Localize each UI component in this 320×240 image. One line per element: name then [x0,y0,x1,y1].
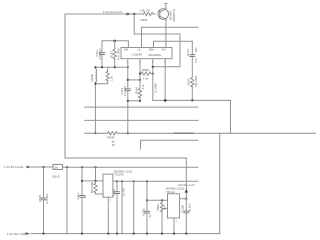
capacitor C505 [43,167,45,198]
wire IC pin3 return [153,66,180,68]
svg-text:4.7u 16V: 4.7u 16V [123,85,127,96]
svg-text:1.5k 1/4: 1.5k 1/4 [140,9,151,13]
svg-text:1u 50V: 1u 50V [122,188,126,196]
svg-text:2N5087 B: 2N5087 B [172,9,176,22]
svg-text:1u: 1u [148,214,152,217]
wire dropper plain 3 [133,181,135,233]
svg-text:*C11B: *C11B [181,205,185,213]
svg-text:AO+: AO+ [162,49,167,52]
svg-text:1u 50V: 1u 50V [187,203,191,211]
svg-text:7: 7 [176,220,178,223]
resistor R563 [191,77,194,87]
resistor R565 [141,72,152,75]
node R565 right [152,73,154,75]
wire ground rail bottom [31,233,220,235]
svg-text:4.7k: 4.7k [141,84,145,90]
wire long line to page edge [85,132,108,134]
svg-text:MC34063L: MC34063L [149,53,162,57]
wire collector to IC [165,19,167,47]
svg-text:4.7u 50V: 4.7u 50V [45,193,49,204]
capacitor C503 [146,181,148,211]
node dots ground rail [42,233,44,235]
wire 12V thru supply vertical [185,158,187,211]
wire bottom feed across [65,157,186,159]
svg-text:L900a: L900a [90,74,94,82]
svg-text:C505: C505 [38,195,42,202]
wire IC pin riser to upper rail [142,27,198,47]
capacitor C113 [81,167,83,195]
capacitor C112 vertical line [127,67,129,88]
wire IC pin1 bottom stub [127,59,129,67]
svg-text:1.6k 1/2W: 1.6k 1/2W [194,75,198,87]
wire IC11A right pin [180,198,187,200]
svg-text:1.2k: 1.2k [110,75,114,81]
svg-text:C113: C113 [76,192,80,199]
wire emitter stub up [165,3,167,9]
svg-text:R564: R564 [135,87,139,94]
svg-text:BW+: BW+ [149,49,155,52]
wire junction down [134,14,180,67]
resistor R545 inline [108,132,119,135]
svg-text:R563: R563 [186,78,190,85]
wire lower header [95,66,127,68]
wire bus corner down right [219,133,221,233]
resistor R944 [107,67,109,70]
node 12V-in arrow [127,13,132,16]
svg-text:4.7u: 4.7u [194,57,198,63]
svg-text:*IC11A: *IC11A [166,190,175,194]
capacitor C510 [116,181,118,191]
resistor R950a [94,181,97,194]
node dots lower header [94,66,96,68]
svg-text:820 1/4W: 820 1/4W [90,181,94,193]
wire output net right of IC10A [113,180,198,182]
svg-text:R565: R565 [142,68,149,72]
svg-text:R553: R553 [141,18,148,22]
svg-text:7: 7 [110,200,112,203]
capacitor C11B [184,210,189,212]
wire darker overlap segment [174,132,194,134]
node header junction [114,40,116,42]
resistor R147 [114,41,116,49]
wire C112 to R564 connector [128,79,140,81]
svg-text:0.0047uF: 0.0047uF [98,48,102,59]
wire R951 to IC11A pin [162,208,168,210]
svg-text:1 W: 1 W [143,77,148,81]
node dots lower rail [42,166,44,168]
svg-text:3A: 3A [54,166,58,170]
svg-text:R951: R951 [156,204,160,211]
svg-text:1k 1/4W: 1k 1/4W [154,83,158,93]
svg-text:R147: R147 [109,51,113,58]
wire VCC connector stub [95,167,97,181]
wire mini bus [128,100,140,102]
wire after arrow to junction [132,13,142,15]
wire dropper plain 2 [121,181,123,233]
capacitor C111 [101,41,103,52]
wire IC11A bottom pin [173,218,175,234]
wire header C111 R147 [102,41,128,48]
wire inductor down [94,82,96,133]
PLACEHOLDER-BOTTOM [4,9,198,236]
wire main bus [153,100,231,133]
wire horizontal mid lines [85,106,198,108]
resistor R951 [160,200,163,213]
svg-text:+CQ146: +CQ146 [131,52,142,56]
svg-text:1.2V from II-2C: 1.2V from II-2C [103,10,123,14]
wire IC10A bottom pin [107,197,109,233]
wire L connector lower [141,140,198,149]
svg-text:*S010: *S010 [52,175,60,179]
resistor R564 riser [139,59,141,88]
capacitor C123 [191,41,193,54]
svg-text:+C503: +C503 [141,208,145,216]
wire IC pin riser to C123 [154,41,193,47]
wire input net IC11A [147,199,168,201]
wire dropper plain [66,167,68,233]
inductor L900 [95,69,96,82]
svg-text:4.7k 1/4W: 4.7k 1/4W [116,48,120,60]
svg-text:W: W [112,143,115,147]
svg-text:DIN: DIN [124,49,128,52]
svg-text:*IC10A: *IC10A [115,173,124,177]
IC U1 regulator box [121,48,172,59]
wire 12V feed top [65,13,127,15]
svg-text:1.2V from II-2C: 1.2V from II-2C [4,165,24,169]
svg-text:1.2V Sub GND: 1.2V Sub GND [7,232,26,236]
wire IC pin4 riser to bus [164,59,166,101]
fuse S010 [53,164,63,169]
IC U2 IC10A box [103,174,113,197]
node arrow 12V thru [185,189,188,193]
node junction VIN [133,13,135,15]
wire pin3 riser down to bus corner [152,59,154,101]
transistor Q1 2N2907 [158,9,169,20]
node R565 left [139,73,141,75]
wire left border feed [64,14,66,158]
wire 12V lower rail cont [63,166,198,168]
wire input net to IC10A [82,180,103,182]
svg-text:25V: 25V [194,47,198,52]
svg-text:C123: C123 [186,49,190,56]
IC U3 IC11A box [168,194,180,218]
resistor R553 [142,12,156,15]
wire 12V lower rail [31,166,53,168]
svg-text:12V thru 1-2C: 12V thru 1-2C [178,183,195,187]
node GND arrow [26,232,31,235]
node 12V-from arrow lower [27,166,32,169]
svg-text:*C510: *C510 [112,189,116,197]
